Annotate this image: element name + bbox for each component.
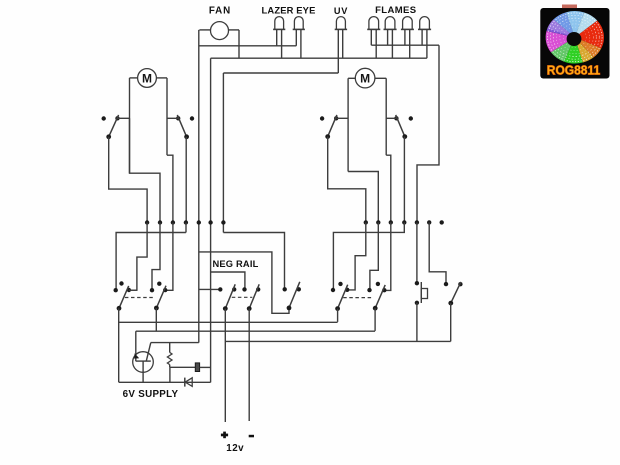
- wire crossrail right: [223, 233, 284, 290]
- wire R3 to pole B arm contact: [384, 222, 391, 290]
- wire M2 left lead: [348, 77, 355, 79]
- wire M2 left drop: [347, 78, 349, 171]
- wire uv left leg: [337, 29, 339, 73]
- wire flames anode rail: [371, 44, 439, 46]
- wire S8a common drop: [337, 309, 339, 322]
- wire lazer2 right leg: [300, 29, 302, 58]
- wire L3 to pole B arm contact: [165, 223, 173, 291]
- switch S3 common: [325, 134, 330, 139]
- wire M1 left jog: [130, 118, 161, 222]
- wire button common drop: [416, 303, 418, 342]
- wire R5 to button: [416, 222, 418, 283]
- wire M2 right drop: [385, 78, 387, 155]
- switch S5a contact left: [114, 288, 118, 292]
- wire S4 common drop: [403, 137, 405, 223]
- switch S8a contact open: [338, 282, 342, 286]
- wire fan right lead: [228, 29, 239, 31]
- wire fan right drop: [238, 30, 240, 58]
- wire flame1 left leg: [370, 29, 372, 45]
- wire M1 right jog: [167, 155, 173, 222]
- wire flame4 left leg: [421, 29, 423, 45]
- wire S8b common drop: [374, 308, 376, 331]
- switch S6b contact: [242, 287, 246, 291]
- gang link S8: [343, 297, 371, 299]
- wire lazer anode rail: [199, 45, 296, 47]
- LED flame 4: [418, 17, 431, 30]
- motor M2: [355, 68, 375, 88]
- switch S6a arm contact: [232, 287, 236, 291]
- LED flame 2: [384, 17, 397, 30]
- fan motor symbol: [211, 22, 229, 40]
- switch S5b contact left: [150, 288, 154, 292]
- wire cathode rail left drop: [210, 58, 212, 382]
- wire S2 contact link: [167, 117, 178, 119]
- wire flame4 right leg: [426, 29, 428, 58]
- resistor R1: [167, 343, 172, 368]
- wire R2 to pole B contact: [370, 222, 378, 290]
- switch S5a common: [117, 306, 122, 311]
- switch S3 throw contact: [334, 116, 338, 120]
- wire lazer1 right leg: [281, 29, 283, 58]
- svg-text:LAZER EYE: LAZER EYE: [262, 5, 316, 16]
- label FAN: [209, 6, 231, 17]
- svg-text:12v: 12v: [226, 443, 244, 454]
- node neg tie R3: [389, 220, 393, 224]
- switch S5b arm: [156, 286, 166, 308]
- wire M1 right drop: [166, 78, 168, 155]
- label UV: [334, 6, 348, 16]
- switch S3 throw contact open: [320, 116, 324, 120]
- svg-text:FAN: FAN: [209, 6, 231, 17]
- switch S2 throw contact: [176, 116, 180, 120]
- wire M1 left drop: [129, 78, 131, 173]
- node neg tie L4: [184, 220, 188, 224]
- wire cap to neg line: [200, 366, 211, 368]
- pushbutton actuator: [421, 289, 427, 299]
- switch S4 throw contact: [394, 116, 398, 120]
- wire crossrail left: [116, 233, 186, 291]
- switch S8a contact left: [331, 288, 335, 292]
- svg-text:6V SUPPLY: 6V SUPPLY: [123, 389, 179, 400]
- wire resistor bottom drop: [169, 367, 171, 382]
- motor M1: [138, 69, 157, 88]
- switch S7 contact left: [283, 287, 287, 291]
- node neg tie R6: [427, 220, 431, 224]
- label 6V SUPPLY: [123, 389, 179, 400]
- wire M1 left lead: [130, 77, 138, 79]
- wire button rail: [225, 340, 450, 342]
- wire M2 left jog: [348, 172, 378, 223]
- wire uv rail drop: [222, 73, 224, 233]
- wire L1 to pole A arm contact: [129, 223, 147, 291]
- label NEG RAIL: [212, 259, 258, 269]
- svg-text:FLAMES: FLAMES: [375, 5, 416, 16]
- wire S4 contact link: [386, 117, 396, 119]
- node neg tie L2: [158, 220, 162, 224]
- LED UV: [335, 17, 347, 30]
- label plus terminal: [221, 432, 228, 439]
- node neg tie L1: [145, 220, 149, 224]
- switch S5b common: [154, 306, 159, 311]
- switch S10 contact left: [444, 282, 448, 286]
- wire resistor to cap: [170, 366, 196, 368]
- switch S6b arm: [249, 284, 259, 308]
- svg-text:ROG8811: ROG8811: [547, 63, 601, 77]
- svg-text:M: M: [142, 71, 152, 85]
- wire flame1 right leg: [375, 29, 377, 58]
- label LAZER EYE: [262, 5, 316, 16]
- wire uv right leg: [342, 29, 344, 58]
- switch S6b common: [247, 306, 252, 311]
- wire lazer2 left leg: [295, 29, 297, 45]
- LED flame 1: [367, 17, 380, 30]
- wire uv left rail: [223, 72, 338, 74]
- diode D1: [185, 378, 192, 387]
- wire Q1 base drop: [142, 361, 144, 382]
- wire S1 contact link: [118, 117, 130, 119]
- switch S6a contact: [218, 287, 222, 291]
- pushbutton bottom contact: [415, 301, 419, 305]
- switch S8a arm: [338, 285, 348, 309]
- switch S1 arm: [109, 115, 119, 137]
- wire S3 common run: [328, 137, 366, 223]
- switch S8b arm: [375, 285, 385, 308]
- switch S2 arm: [177, 115, 186, 137]
- label 12v: [226, 443, 244, 454]
- switch S4 throw contact open: [409, 116, 413, 120]
- switch S8a common: [335, 306, 340, 311]
- logo ROG8811: [540, 5, 609, 79]
- switch S10 common: [448, 301, 453, 306]
- wire S5a common drop: [118, 308, 120, 382]
- switch S5a contact open: [119, 281, 123, 285]
- switch S8b contact open: [376, 282, 380, 286]
- wire R4 to crossrail: [333, 222, 404, 290]
- wire L4 to crossrail: [185, 223, 187, 233]
- switch S8b common: [373, 306, 378, 311]
- wire S10 common drop: [450, 303, 452, 341]
- wire L2 to pole B contact: [152, 223, 160, 291]
- switch S2 throw contact open: [190, 116, 194, 120]
- label minus terminal: [249, 435, 254, 438]
- node neg tie L5: [197, 220, 201, 224]
- LED lazer 1: [273, 17, 285, 30]
- node neg tie L3: [171, 220, 175, 224]
- switch S5a arm: [119, 286, 129, 308]
- wire common cathode rail: [211, 57, 427, 59]
- wire R1 to pole A arm contact: [347, 222, 366, 290]
- wire dpdt common link upper: [119, 321, 338, 323]
- wire flame2 right leg: [391, 29, 393, 58]
- node neg tie R2: [376, 220, 380, 224]
- switch S1 throw contact: [115, 116, 119, 120]
- switch S6a arm: [225, 284, 235, 308]
- switch S5b contact open: [157, 282, 161, 286]
- switch S3 arm: [328, 115, 337, 137]
- node neg tie L6: [208, 220, 212, 224]
- switch S5a arm contact: [127, 288, 131, 292]
- switch S7 arm: [289, 282, 300, 308]
- wire flames rail right drop: [417, 45, 439, 222]
- node neg tie R7: [440, 220, 444, 224]
- wire lazer1 left leg: [276, 29, 278, 45]
- switch S6a common: [223, 306, 228, 311]
- node neg tie R5: [415, 220, 419, 224]
- wire flame2 left leg: [387, 29, 389, 45]
- pushbutton bar: [420, 282, 422, 303]
- switch S1 common: [106, 134, 111, 139]
- wire M1 right lead: [156, 77, 167, 79]
- switch S4 arm: [396, 115, 405, 137]
- switch S10 arm: [451, 282, 461, 303]
- svg-text:UV: UV: [334, 6, 348, 16]
- switch S8a arm contact: [345, 288, 349, 292]
- svg-text:NEG RAIL: NEG RAIL: [212, 259, 258, 269]
- wire R6 to switch S10: [429, 222, 446, 284]
- wire S5a arm contact link: [129, 289, 137, 291]
- label FLAMES: [375, 5, 416, 16]
- switch S1 throw contact open: [102, 116, 106, 120]
- wire neg branch upper: [199, 252, 289, 313]
- wire battery negative riser: [248, 309, 250, 421]
- transistor Q1: [133, 331, 154, 372]
- switch S2 common: [184, 134, 189, 139]
- pushbutton top contact: [415, 281, 419, 285]
- wire flame3 right leg: [409, 29, 411, 58]
- wire S3 contact link: [336, 117, 348, 119]
- wire fan left drop: [198, 30, 200, 343]
- switch S7 arm contact: [297, 287, 301, 291]
- switch S4 common: [402, 134, 407, 139]
- switch S10 arm contact: [458, 282, 462, 286]
- LED flame 3: [401, 17, 414, 30]
- switch S5b arm contact: [163, 288, 167, 292]
- gang link S5: [125, 297, 154, 299]
- wire M2 right jog: [386, 155, 391, 222]
- switch S7 common: [287, 306, 292, 311]
- wire fan left lead: [199, 29, 210, 31]
- wire flame3 left leg: [404, 29, 406, 45]
- switch S6b arm contact: [256, 287, 260, 291]
- wire neg branch mid: [211, 272, 245, 289]
- wire collector rail: [151, 342, 199, 344]
- capacitor C1: [195, 363, 199, 372]
- wire S2 common drop: [185, 137, 187, 223]
- switch S8b arm contact: [382, 288, 386, 292]
- wire dpdt common link lower: [136, 330, 375, 332]
- wire S1 common run: [109, 137, 147, 223]
- LED lazer 2: [293, 17, 305, 30]
- gang link S6: [232, 296, 253, 298]
- node neg tie R4: [402, 220, 406, 224]
- svg-text:M: M: [360, 72, 370, 86]
- node neg tie L7: [221, 220, 225, 224]
- wire S5b common drop: [155, 308, 157, 331]
- wire battery positive riser: [224, 309, 226, 422]
- wire supply ground rail: [119, 381, 211, 383]
- switch S8b contact left: [367, 288, 371, 292]
- node neg tie R1: [364, 220, 368, 224]
- wire neg branch lower: [199, 288, 221, 290]
- wire M2 right lead: [375, 77, 386, 79]
